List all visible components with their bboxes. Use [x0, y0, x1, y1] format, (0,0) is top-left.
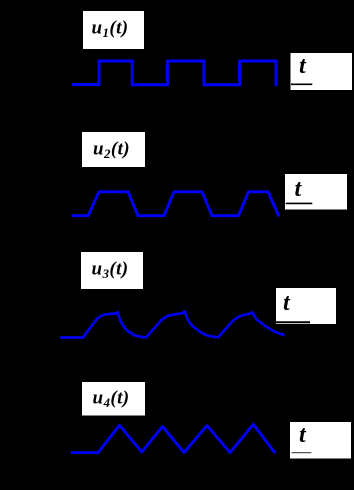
label box u1(t): [83, 11, 144, 49]
t-box 2: [285, 174, 347, 210]
label box u3(t): [81, 252, 143, 289]
svg-text:u1(t): u1(t): [92, 18, 129, 41]
t-box 4: [290, 422, 351, 459]
axis tick in t-box 4: [292, 452, 312, 454]
label box u2(t): [82, 132, 145, 167]
svg-text:u2(t): u2(t): [93, 139, 130, 162]
waveform u1: square wave: [72, 61, 276, 86]
axis tick in t-box 3: [276, 321, 310, 323]
t-box 3: [276, 288, 336, 324]
svg-text:u4(t): u4(t): [93, 388, 130, 411]
axis tick in t-box 2: [286, 202, 313, 204]
label box u4(t): [82, 382, 145, 416]
svg-text:u3(t): u3(t): [92, 259, 129, 282]
t-box 1: [291, 53, 353, 90]
axis tick in t-box 1: [291, 83, 312, 85]
waveform u4: triangle wave: [71, 424, 275, 453]
waveform u3: RC charge/discharge wave: [60, 311, 285, 337]
waveform u2: trapezoid wave: [72, 192, 279, 217]
